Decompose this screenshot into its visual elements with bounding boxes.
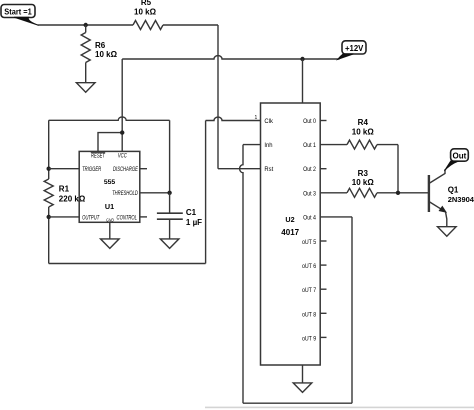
transistor Q1 2N3904 — [429, 169, 474, 226]
svg-text:DISCHARGE: DISCHARGE — [113, 166, 138, 173]
svg-text:1 µF: 1 µF — [186, 218, 202, 227]
svg-text:4017: 4017 — [281, 228, 299, 237]
svg-text:GND: GND — [106, 217, 114, 223]
svg-text:VCC: VCC — [118, 153, 127, 160]
svg-text:TRIGGER: TRIGGER — [82, 166, 101, 173]
svg-text:Out 3: Out 3 — [303, 191, 316, 197]
svg-text:OUTPUT: OUTPUT — [82, 215, 100, 222]
resistor R4 — [347, 118, 377, 149]
wire left vertical top — [48, 120, 50, 179]
wire loop right vertical — [351, 217, 353, 403]
wire vertical down to Rst row — [217, 25, 219, 169]
svg-text:R5: R5 — [141, 0, 152, 7]
node junction output — [47, 215, 51, 219]
svg-text:R4: R4 — [358, 118, 369, 127]
pin stub discharge — [140, 168, 147, 170]
svg-text:Out 1: Out 1 — [303, 143, 316, 149]
svg-text:220 kΩ: 220 kΩ — [59, 195, 86, 204]
node junction start/R6 — [84, 23, 88, 27]
pin stub 4017 gnd — [302, 365, 304, 383]
svg-text:Out 4: Out 4 — [303, 215, 317, 221]
svg-text:Start =1: Start =1 — [4, 7, 32, 16]
wire output — [49, 216, 79, 218]
svg-text:2N3904: 2N3904 — [448, 195, 474, 204]
wire bottom run — [49, 263, 206, 265]
node junction reset tie — [120, 130, 124, 134]
svg-text:R3: R3 — [358, 169, 369, 178]
wire R5 to corner — [163, 24, 218, 26]
svg-text:1: 1 — [255, 115, 258, 121]
ground below 555 — [101, 239, 120, 249]
svg-text:Out 0: Out 0 — [303, 119, 316, 125]
pin stub control — [140, 216, 147, 218]
wire 555 VCC drop — [121, 59, 123, 151]
svg-text:C1: C1 — [186, 208, 197, 217]
wire R4 down — [397, 145, 399, 193]
net flag Out — [444, 149, 468, 171]
+12V flag — [338, 41, 366, 60]
svg-text:Rst: Rst — [264, 167, 273, 173]
wire threshold — [140, 192, 170, 194]
svg-text:Inh: Inh — [264, 143, 272, 149]
wire 4017 VCC — [302, 59, 304, 103]
wire Out3 to R3 — [320, 192, 347, 194]
wire Clk — [206, 117, 261, 120]
wire left vertical bottom — [48, 207, 50, 264]
node junction threshold/C1 — [167, 191, 171, 195]
ground below R6 — [76, 83, 95, 93]
wire loop bottom — [243, 402, 352, 404]
pin stub 555 gnd — [109, 222, 111, 239]
svg-text:oUT 9: oUT 9 — [302, 336, 316, 342]
resistor R6 — [81, 25, 117, 83]
svg-text:10 kΩ: 10 kΩ — [352, 178, 375, 187]
svg-text:R6: R6 — [95, 41, 106, 50]
pin stubs 4017 right side — [320, 121, 326, 338]
svg-text:555: 555 — [104, 179, 116, 186]
wire R3 to base — [377, 192, 429, 194]
svg-text:THRESHOLD: THRESHOLD — [112, 191, 138, 198]
node junction rail/4017 VCC — [300, 57, 304, 61]
+12V rail wire — [122, 56, 339, 59]
resistor R1 — [44, 179, 86, 207]
wire Rst — [218, 168, 261, 170]
wire Out1 to R4 — [320, 144, 347, 146]
IC U1 555 box — [79, 151, 140, 222]
wire Inh — [243, 144, 261, 146]
wire Inh loop vertical — [240, 145, 243, 404]
wire R4 right — [377, 144, 398, 146]
svg-text:oUT 8: oUT 8 — [302, 312, 316, 318]
net flag Start=1 — [1, 5, 39, 26]
wire up to Clk row — [205, 121, 207, 264]
svg-text:10 kΩ: 10 kΩ — [352, 127, 375, 136]
svg-text:U2: U2 — [285, 215, 294, 224]
svg-text:Clk: Clk — [264, 119, 273, 125]
svg-text:RESET: RESET — [91, 153, 106, 160]
capacitor C1 — [157, 193, 202, 239]
wire trigger — [49, 168, 79, 170]
svg-text:oUT 5: oUT 5 — [302, 240, 316, 246]
node junction R4/R3 — [396, 191, 400, 195]
svg-text:10 kΩ: 10 kΩ — [134, 7, 157, 16]
ground below C1 — [160, 239, 179, 249]
svg-text:R1: R1 — [59, 184, 70, 193]
resistor R5 — [133, 0, 163, 30]
svg-text:Out 2: Out 2 — [303, 167, 316, 173]
ground below 4017 — [293, 383, 312, 393]
svg-text:Q1: Q1 — [448, 185, 459, 194]
wire loop top — [49, 117, 170, 120]
node junction trigger — [47, 167, 51, 171]
svg-text:oUT 7: oUT 7 — [302, 288, 316, 294]
svg-text:+12V: +12V — [345, 44, 364, 53]
svg-text:Out: Out — [453, 151, 467, 160]
wire RESET tie to VCC — [98, 133, 122, 152]
ground below Q1 — [438, 227, 457, 237]
resistor R3 — [347, 169, 377, 197]
wire start to R5 — [38, 24, 134, 26]
svg-text:CONTROL: CONTROL — [117, 215, 138, 222]
page rule bottom — [205, 407, 474, 409]
svg-text:oUT 6: oUT 6 — [302, 264, 316, 270]
wire Out4 — [320, 216, 352, 218]
svg-text:U1: U1 — [105, 202, 114, 211]
wire down to threshold/C1 — [169, 120, 171, 193]
IC U2 4017 box — [255, 103, 321, 365]
svg-text:10 kΩ: 10 kΩ — [95, 50, 118, 59]
